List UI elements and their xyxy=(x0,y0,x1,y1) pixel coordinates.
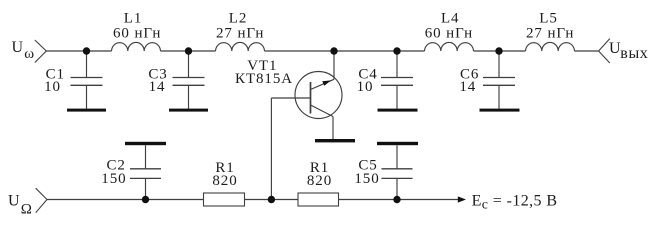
svg-text:Ω: Ω xyxy=(21,202,33,218)
resistor R1 right body xyxy=(298,193,339,206)
node dot C1/rail xyxy=(83,47,90,54)
node dot C3/rail xyxy=(185,47,192,54)
svg-text:10: 10 xyxy=(44,79,61,95)
node dot C6/rail xyxy=(495,47,502,54)
wire R1 to C5 node xyxy=(339,199,398,201)
svg-text:820: 820 xyxy=(212,173,237,189)
common bar above C2 xyxy=(125,142,166,145)
svg-text:вых: вых xyxy=(620,45,648,62)
common bar under C1 xyxy=(67,109,106,112)
svg-text:150: 150 xyxy=(101,171,126,187)
wire collector to common bar xyxy=(332,117,334,140)
svg-text:Ec = -12,5 В: Ec = -12,5 В xyxy=(472,192,558,212)
capacitor C1 plates xyxy=(71,78,103,86)
wire emitter to top rail xyxy=(333,51,335,79)
capacitor C3 plates xyxy=(173,78,205,86)
Ec arrowhead xyxy=(458,196,466,202)
svg-text:U: U xyxy=(8,193,20,210)
svg-text:КТ815А: КТ815А xyxy=(235,71,293,87)
capacitor C6 leads xyxy=(498,51,500,109)
wire L2 to L4 xyxy=(265,50,425,52)
capacitor C6 plates xyxy=(483,78,515,86)
transistor VT1 emitter diagonal xyxy=(311,79,335,89)
svg-text:L5: L5 xyxy=(539,10,557,26)
svg-text:U: U xyxy=(609,40,621,57)
wire L1 to L2 xyxy=(161,50,216,52)
svg-text:10: 10 xyxy=(357,79,374,95)
common bar under C4 xyxy=(378,109,418,112)
input terminal UΩ chevron xyxy=(36,188,47,213)
output terminal Uвых chevron xyxy=(599,39,610,63)
common bar at VT1 collector xyxy=(315,139,355,142)
node dot VT1 emitter/rail xyxy=(330,47,337,54)
svg-text:150: 150 xyxy=(354,171,379,187)
wire bottom rail left xyxy=(47,199,204,201)
node dot C5/bottom rail xyxy=(393,196,400,203)
svg-text:27 нГн: 27 нГн xyxy=(216,26,264,42)
svg-text:820: 820 xyxy=(307,173,332,189)
wire base feed vertical xyxy=(270,98,272,200)
inductor L5 xyxy=(526,42,575,51)
capacitor C2 leads xyxy=(145,145,147,199)
svg-text:U: U xyxy=(12,39,24,56)
transistor VT1 base lead wire xyxy=(271,97,310,99)
wire top rail left xyxy=(46,50,111,52)
resistor R1 left body xyxy=(204,193,245,206)
input terminal Uω chevron xyxy=(35,40,47,63)
common bar under C3 xyxy=(169,109,208,112)
svg-text:14: 14 xyxy=(149,79,166,95)
svg-text:60 нГн: 60 нГн xyxy=(113,26,161,42)
capacitor C4 plates xyxy=(381,78,413,86)
capacitor C1 leads xyxy=(86,51,88,109)
capacitor C3 leads xyxy=(188,51,190,109)
wire to Ec arrow xyxy=(397,199,459,201)
inductor L2 xyxy=(216,42,265,51)
capacitor C4 leads xyxy=(396,51,398,109)
svg-text:14: 14 xyxy=(459,79,476,95)
common bar above C5 xyxy=(377,142,418,145)
transistor VT1 collector diagonal xyxy=(311,105,334,117)
capacitor C5 plates xyxy=(382,169,413,179)
inductor L4 xyxy=(425,42,474,51)
svg-text:L2: L2 xyxy=(229,10,247,26)
svg-text:L1: L1 xyxy=(124,10,142,26)
capacitor C2 plates xyxy=(130,169,161,179)
svg-text:ω: ω xyxy=(24,46,34,62)
wire L5 to output xyxy=(575,50,599,52)
common bar under C6 xyxy=(480,109,520,112)
transistor VT1 body circle xyxy=(295,72,342,119)
svg-text:60 нГн: 60 нГн xyxy=(425,26,473,42)
svg-text:27 нГн: 27 нГн xyxy=(526,26,574,42)
node dot C2/bottom rail xyxy=(142,196,149,203)
node dot base/bottom rail xyxy=(268,196,275,203)
wire R1 to R1 xyxy=(245,199,299,201)
svg-text:L4: L4 xyxy=(441,10,459,26)
capacitor C5 leads xyxy=(396,145,398,199)
transistor VT1 base bar xyxy=(310,82,312,114)
wire L4 to L5 xyxy=(474,50,526,52)
emitter arrowhead xyxy=(322,80,331,85)
node dot C4/rail xyxy=(393,47,400,54)
inductor L1 xyxy=(112,42,161,51)
